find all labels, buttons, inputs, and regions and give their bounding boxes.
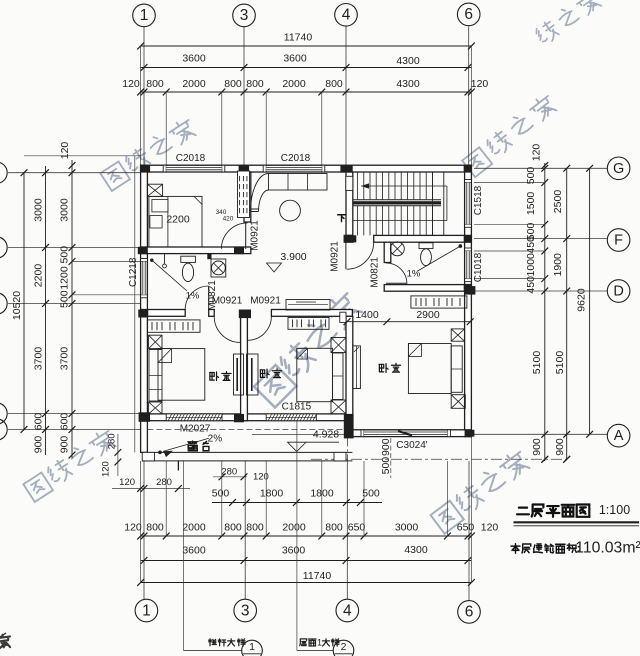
svg-text:D: D <box>613 284 623 300</box>
interior wall bed3 west <box>346 316 353 420</box>
svg-text:800: 800 <box>246 521 264 533</box>
svg-text:4: 4 <box>342 7 351 24</box>
exterior wall top <box>141 165 472 172</box>
svg-text:450: 450 <box>525 276 537 294</box>
axis stub grid4 below right block <box>347 438 349 461</box>
svg-text:800: 800 <box>246 78 264 90</box>
svg-text:M0921: M0921 <box>330 241 341 272</box>
detail ref 屋面1大样 <box>296 421 298 651</box>
bedside column bed1 <box>149 350 162 402</box>
terrace front axis leader right <box>311 458 567 460</box>
svg-text:800: 800 <box>325 521 343 533</box>
svg-text:C2018: C2018 <box>176 153 206 164</box>
svg-text:4300: 4300 <box>396 55 420 67</box>
svg-text:2000: 2000 <box>182 78 206 90</box>
box X bed3 b <box>451 395 465 409</box>
svg-text:M0921: M0921 <box>249 220 260 251</box>
svg-text:900: 900 <box>554 438 566 456</box>
svg-text:600: 600 <box>32 413 44 431</box>
svg-text:11740: 11740 <box>284 31 313 43</box>
svg-text:3000: 3000 <box>58 198 70 222</box>
window C2018 right in top wall <box>263 165 266 172</box>
box X bed2 a <box>331 338 346 353</box>
svg-text:800: 800 <box>146 521 164 533</box>
svg-text:1800: 1800 <box>260 487 284 499</box>
svg-text:280: 280 <box>106 433 117 449</box>
ink mark bottom-left corner <box>0 634 11 649</box>
svg-text:9620: 9620 <box>575 288 587 312</box>
svg-text:1: 1 <box>140 7 149 24</box>
box X bed1 a <box>149 335 162 348</box>
svg-text:1900: 1900 <box>552 253 564 277</box>
bed top-left room <box>149 196 202 247</box>
toilet bath2 <box>419 243 433 249</box>
svg-text:1: 1 <box>317 637 322 647</box>
svg-text:500: 500 <box>525 167 537 185</box>
svg-text:1500: 1500 <box>525 192 537 216</box>
svg-text:3600: 3600 <box>283 53 307 65</box>
svg-text:800: 800 <box>146 78 164 90</box>
terrace floor dashed line <box>147 429 346 431</box>
label bedroom1 卧室 <box>210 372 219 381</box>
grid axis vertical extension lines top <box>143 27 145 166</box>
slope arrow bath1 <box>152 260 187 291</box>
grid bubble A right <box>474 433 607 435</box>
bedside column bed2 <box>333 353 344 400</box>
grid bubble left row 1 <box>8 172 141 174</box>
dimension column right detail 120 500 1500 500 450 1000 450 5100 900 <box>544 163 546 461</box>
watermark 图纸之家 bottom-right <box>431 501 464 534</box>
door M0921 bed2 south <box>247 316 271 340</box>
svg-text:650: 650 <box>457 521 475 533</box>
svg-text:1%: 1% <box>407 268 421 279</box>
dimension column left 10520 <box>23 173 25 430</box>
svg-text:1000: 1000 <box>525 253 537 277</box>
watermark 图纸之家 top-right <box>462 147 492 177</box>
interior wall stair west <box>346 172 353 235</box>
grid bubble left row 4 <box>8 413 141 415</box>
svg-text:A: A <box>614 428 624 444</box>
svg-text:M2027: M2027 <box>180 423 211 434</box>
svg-text:2000: 2000 <box>282 521 306 533</box>
svg-text:800: 800 <box>224 78 242 90</box>
svg-text:3700: 3700 <box>58 347 70 371</box>
dim 1400 2900 interior <box>347 321 470 323</box>
svg-text:3600: 3600 <box>282 544 306 556</box>
grid bubble 4 bottom <box>336 599 359 622</box>
svg-text:500: 500 <box>58 290 70 308</box>
svg-text:120: 120 <box>122 78 140 90</box>
slope arrow bath2 <box>418 246 461 271</box>
svg-text:3: 3 <box>241 602 250 619</box>
window C1018 in right wall <box>465 248 472 251</box>
toilet bath1 <box>181 256 196 262</box>
svg-text:500: 500 <box>212 487 230 499</box>
watermark 图纸之家 bottom-left <box>23 473 53 502</box>
grid bubble 4 top <box>335 4 358 27</box>
window C1218 in left wall <box>141 259 148 262</box>
interior wall under stairs F-right <box>374 235 472 242</box>
svg-text:2200: 2200 <box>32 264 44 288</box>
svg-text:900: 900 <box>380 438 392 456</box>
wardrobe band bed2 <box>288 318 329 330</box>
grid bubble 6 top <box>457 3 480 26</box>
cabinet living south <box>286 300 330 311</box>
interior wall F-left (bath north) <box>141 247 251 254</box>
window C2018 left in top wall <box>163 165 166 172</box>
bed 1 <box>158 349 205 401</box>
terrace west wall stub <box>141 421 148 453</box>
door-window M2027 in bottom wall <box>166 414 222 421</box>
svg-text:600: 600 <box>58 413 70 431</box>
bed 2 <box>297 348 333 401</box>
wardrobe box X bed-tl <box>147 184 162 196</box>
svg-text:3.900: 3.900 <box>280 251 306 263</box>
structural columns black <box>141 165 151 172</box>
title underline <box>514 521 640 523</box>
svg-text:1200: 1200 <box>58 266 70 290</box>
closet bed3 west <box>353 346 361 389</box>
terrace parapet <box>142 451 352 453</box>
closets mid-wall bed1 bed2 <box>234 354 244 395</box>
svg-text:4300: 4300 <box>396 78 420 90</box>
label bedroom2 卧室 <box>260 369 269 378</box>
watermark 图纸之家 top-left <box>100 162 130 191</box>
svg-text:4300: 4300 <box>404 544 428 556</box>
bedside column bed3 <box>451 346 462 392</box>
grid bubble 1 bottom <box>135 599 158 622</box>
svg-text:C1518: C1518 <box>473 185 484 215</box>
exterior wall bottom-left block <box>141 414 353 421</box>
dining table circle <box>280 200 301 221</box>
svg-text:120: 120 <box>59 142 71 160</box>
svg-text:500: 500 <box>58 246 70 264</box>
door M0921 living-hall <box>347 242 374 269</box>
svg-text:420: 420 <box>223 216 234 223</box>
svg-text:900: 900 <box>32 436 44 454</box>
box X bed2 b <box>331 400 346 414</box>
floor drain bath2 <box>390 242 404 256</box>
svg-text:F: F <box>614 233 623 249</box>
svg-text:C2018: C2018 <box>281 153 311 164</box>
svg-text:650: 650 <box>348 521 366 533</box>
svg-text:3000: 3000 <box>32 198 44 222</box>
grid bubble 6 bottom <box>458 601 481 624</box>
label xia (down) <box>338 215 346 222</box>
svg-text:3000: 3000 <box>395 521 419 533</box>
svg-text:120: 120 <box>119 477 135 488</box>
svg-text:800: 800 <box>325 78 343 90</box>
svg-text:1: 1 <box>142 602 151 619</box>
svg-text:6: 6 <box>464 6 473 23</box>
svg-text:450: 450 <box>525 236 537 254</box>
terrace slope arrow <box>163 438 209 451</box>
window C1518 in right wall <box>465 180 472 183</box>
watermark 图纸之家 center <box>254 365 296 407</box>
svg-text:G: G <box>613 161 624 177</box>
bed 3 <box>408 344 451 394</box>
title 二层平面图 <box>517 508 529 515</box>
label bedroom3 卧室 <box>379 364 388 373</box>
box X bed3 a <box>451 329 464 341</box>
subtitle 本层建筑面积 <box>511 544 520 553</box>
watermark 图纸之家 top-corner <box>533 19 560 46</box>
left columns top boundary line <box>24 155 141 157</box>
svg-text:11740: 11740 <box>303 570 332 582</box>
svg-text:C1018: C1018 <box>473 252 484 282</box>
svg-text:120: 120 <box>530 144 542 162</box>
A axis line with 4.928 <box>252 434 344 436</box>
terrace step tick <box>177 461 179 471</box>
dimension row bottom 120 800 2000 800 800 2000 800 650 3000 650 120 <box>141 535 472 537</box>
wardrobe band bed1 <box>147 320 200 332</box>
box X bed1 b <box>149 402 162 414</box>
bath1 partition stub <box>207 254 211 260</box>
washing machine bath1 <box>211 259 226 277</box>
svg-text:120: 120 <box>481 521 499 533</box>
window C3024 in bottom-right wall <box>361 430 364 437</box>
svg-text:1: 1 <box>249 641 255 653</box>
svg-text:C1218: C1218 <box>128 257 139 287</box>
svg-text:4.928: 4.928 <box>313 429 339 441</box>
exterior wall right <box>465 165 472 436</box>
svg-text:C1815: C1815 <box>282 402 312 413</box>
dimension row top 120 800 2000 800 800 2000 800 4300 120 <box>141 91 472 93</box>
svg-text:2000: 2000 <box>282 78 306 90</box>
interior wall mid bedrooms <box>241 316 248 420</box>
svg-text:2%: 2% <box>208 433 223 444</box>
svg-text:500: 500 <box>362 487 380 499</box>
svg-text:3600: 3600 <box>182 53 206 65</box>
grid bubble left row 2 <box>8 247 141 249</box>
svg-text:M0921: M0921 <box>212 296 243 307</box>
interior wall D-left (bedrooms north) <box>141 310 186 317</box>
dimension row bottom 500 1800 1800 500 <box>212 502 382 504</box>
door M0921 bed1 south <box>214 316 240 342</box>
svg-text:M0921: M0921 <box>250 296 281 307</box>
label terrace 露台 <box>188 441 197 451</box>
svg-text:1:100: 1:100 <box>599 503 630 517</box>
dimension column left 120 3000 500 1200 500 3700 600 900 <box>71 160 73 458</box>
grid bubble 3 top <box>233 4 256 27</box>
dimension row bottom 3600 3600 4300 <box>141 560 472 562</box>
window C1815 in bottom wall <box>266 414 316 421</box>
svg-text:800: 800 <box>224 521 242 533</box>
door M0921 bed1-east <box>221 223 247 249</box>
svg-text:5100: 5100 <box>531 351 543 375</box>
door M0821 bath2 <box>386 263 407 284</box>
grid bubble D right <box>474 290 607 292</box>
wardrobe band bed3 <box>411 296 467 308</box>
closet bed-tl <box>238 171 250 218</box>
svg-text:120: 120 <box>100 461 111 477</box>
svg-text:900: 900 <box>531 438 543 456</box>
svg-text:120: 120 <box>124 521 142 533</box>
kitchen counter L with corner arc <box>269 174 328 191</box>
grid bubble 3 bottom <box>234 599 257 622</box>
grid bubble F right <box>474 238 607 240</box>
svg-text:2200: 2200 <box>166 213 190 225</box>
grid axis vertical extension lines bottom <box>143 461 145 599</box>
svg-text:6: 6 <box>465 604 474 621</box>
svg-text:110.03m²: 110.03m² <box>575 539 640 556</box>
svg-text:2500: 2500 <box>552 190 564 214</box>
exterior wall left <box>141 165 148 421</box>
svg-text:3: 3 <box>240 7 249 24</box>
svg-text:280: 280 <box>221 467 237 478</box>
svg-text:10520: 10520 <box>11 291 23 320</box>
interior wall bath2 west <box>384 242 391 262</box>
door M0821 bath1 <box>185 286 209 310</box>
svg-text:120: 120 <box>471 78 489 90</box>
svg-text:280: 280 <box>156 477 172 488</box>
level mark 3.900 <box>267 263 282 272</box>
svg-text:2: 2 <box>341 641 347 653</box>
dimension column right 2500 1900 5100 900 <box>566 168 568 459</box>
stairs with treads and rail <box>357 172 359 200</box>
interior wall grid3 vertical (bed1 east) <box>244 172 251 222</box>
svg-text:3600: 3600 <box>182 544 206 556</box>
svg-text:1400: 1400 <box>355 309 379 321</box>
exterior wall bottom-right block <box>346 430 471 437</box>
dimension row top 3600 3600 4300 <box>141 67 472 69</box>
bath1 shower fixture <box>164 254 166 264</box>
grid bubble 1 top <box>133 4 156 27</box>
svg-text:5100: 5100 <box>554 351 566 375</box>
dimension column left 3000 2200 3700 600 900 <box>45 166 47 455</box>
grid bubble G right <box>474 167 607 169</box>
svg-text:120: 120 <box>253 471 269 482</box>
svg-text:2000: 2000 <box>182 521 206 533</box>
svg-text:2900: 2900 <box>416 309 440 321</box>
white post bed3 nw <box>340 312 346 322</box>
svg-text:1%: 1% <box>186 291 200 302</box>
grid bubble left row 3 <box>8 303 141 305</box>
dimension column right 9620 <box>589 168 591 434</box>
dimension row bottom 11740 <box>141 582 472 584</box>
grid bubble left row 5 <box>8 429 141 431</box>
svg-text:500: 500 <box>380 457 392 475</box>
interior wall bath2 south <box>384 285 471 292</box>
window C3024 centerline <box>390 438 392 478</box>
dimension row top 11740 <box>141 45 472 47</box>
svg-text:900: 900 <box>58 436 70 454</box>
svg-text:4: 4 <box>343 602 352 619</box>
svg-text:C3024': C3024' <box>396 440 427 451</box>
detail ref 栏杆大样 <box>183 461 185 651</box>
svg-text:M0821: M0821 <box>370 257 381 288</box>
svg-text:3700: 3700 <box>32 347 44 371</box>
